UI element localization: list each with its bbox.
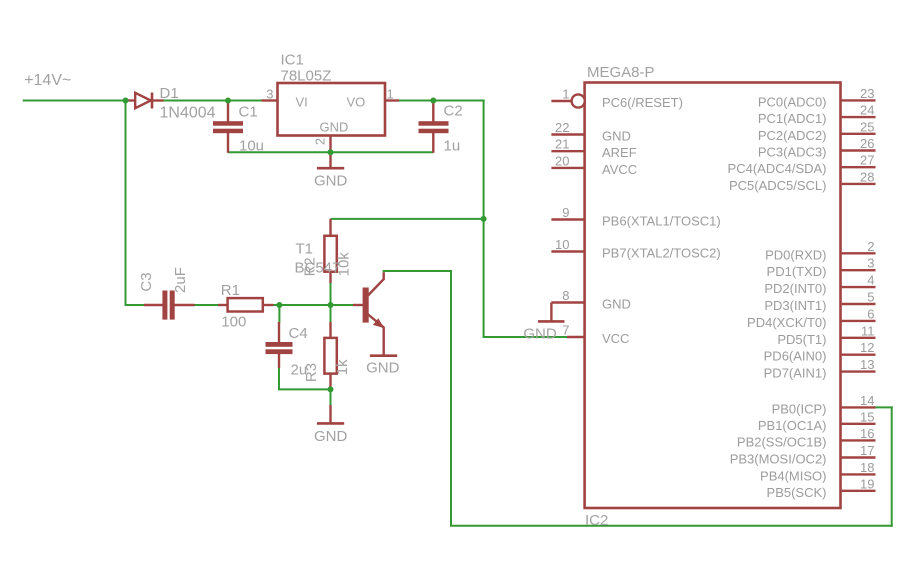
svg-text:21: 21 bbox=[555, 137, 569, 152]
microcontroller IC2 MEGA8-P body bbox=[585, 83, 841, 509]
wire: base node to transistor base bbox=[330, 304, 354, 306]
value 2uF bbox=[172, 267, 189, 293]
svg-text:13: 13 bbox=[860, 357, 874, 372]
resistor R2 bbox=[324, 219, 336, 283]
ground symbol below R3 bbox=[317, 405, 344, 423]
pin 24 PC1(ADC1) of IC2 bbox=[758, 103, 876, 127]
diode D1 bbox=[126, 93, 164, 109]
wire: C1 node to regulator VI bbox=[227, 100, 262, 102]
capacitor C3 bbox=[144, 291, 195, 320]
svg-text:C2: C2 bbox=[444, 103, 463, 120]
pin 20 AVCC of IC2 bbox=[551, 153, 637, 177]
svg-text:4: 4 bbox=[867, 273, 874, 288]
svg-text:BC547: BC547 bbox=[295, 260, 341, 277]
pin 11 PD5(T1) of IC2 bbox=[777, 323, 875, 347]
value BC547 bbox=[295, 260, 341, 277]
junction: R2/+5V node bbox=[481, 216, 487, 222]
svg-text:PC3(ADC3): PC3(ADC3) bbox=[758, 145, 827, 160]
value 2u bbox=[291, 362, 308, 379]
svg-text:GND: GND bbox=[314, 428, 348, 445]
svg-text:3: 3 bbox=[867, 256, 874, 271]
svg-text:27: 27 bbox=[860, 153, 874, 168]
wire: C4 bottom to R3 bottom node bbox=[278, 367, 332, 389]
value 10u bbox=[239, 138, 264, 155]
svg-text:PB6(XTAL1/TOSC1): PB6(XTAL1/TOSC1) bbox=[602, 214, 721, 229]
net label +14V~ bbox=[24, 72, 71, 89]
pin 27 PC4(ADC4/SDA) of IC2 bbox=[728, 153, 876, 177]
pin 12 PD6(AIN0) of IC2 bbox=[764, 340, 876, 364]
pin 25 PC2(ADC2) of IC2 bbox=[758, 119, 876, 143]
ground symbol at emitter bbox=[370, 354, 397, 357]
svg-text:26: 26 bbox=[860, 136, 874, 151]
pin 2 of IC1 bbox=[313, 136, 331, 154]
svg-text:PD6(AIN0): PD6(AIN0) bbox=[764, 349, 827, 364]
svg-text:PB2(SS/OC1B): PB2(SS/OC1B) bbox=[737, 434, 827, 449]
label GND emitter bbox=[366, 360, 400, 377]
wire: collector to PB0 net bbox=[383, 270, 893, 527]
svg-text:GND: GND bbox=[314, 173, 348, 190]
voltage regulator IC1 bbox=[278, 83, 386, 136]
svg-text:15: 15 bbox=[860, 409, 874, 424]
svg-text:PC6(/RESET): PC6(/RESET) bbox=[602, 95, 683, 110]
svg-text:PD5(T1): PD5(T1) bbox=[777, 332, 826, 347]
svg-text:1: 1 bbox=[387, 87, 394, 102]
svg-text:20: 20 bbox=[555, 153, 569, 168]
svg-text:17: 17 bbox=[860, 443, 874, 458]
svg-text:C1: C1 bbox=[239, 104, 258, 121]
svg-text:R1: R1 bbox=[221, 282, 240, 299]
transistor T1 bbox=[353, 272, 384, 355]
capacitor C1 bbox=[213, 101, 243, 153]
label R2 bbox=[301, 257, 318, 276]
wire: R1 to base node bbox=[272, 304, 332, 306]
svg-text:VO: VO bbox=[347, 95, 366, 110]
wire: C3 to R1 segment bbox=[194, 304, 219, 306]
label GND pin8 bbox=[523, 325, 557, 342]
label T1 bbox=[296, 241, 314, 258]
svg-text:23: 23 bbox=[860, 86, 874, 101]
svg-text:11: 11 bbox=[861, 323, 875, 338]
svg-text:10u: 10u bbox=[239, 138, 264, 155]
svg-text:AVCC: AVCC bbox=[602, 162, 637, 177]
svg-text:2: 2 bbox=[867, 239, 874, 254]
wire: +14V input rail bbox=[23, 100, 127, 102]
svg-text:1N4004: 1N4004 bbox=[160, 105, 216, 122]
svg-text:C3: C3 bbox=[138, 272, 155, 291]
junction: R3/C4 ground node bbox=[328, 386, 334, 392]
pin 10 PB7(XTAL2/TOSC2) of IC2 bbox=[551, 237, 720, 261]
pin 15 PB1(OC1A) of IC2 bbox=[758, 409, 876, 433]
svg-text:PB1(OC1A): PB1(OC1A) bbox=[758, 418, 827, 433]
svg-text:2uF: 2uF bbox=[172, 267, 189, 293]
pin 23 PC0(ADC0) of IC2 bbox=[758, 86, 876, 110]
svg-text:GND: GND bbox=[366, 360, 400, 377]
svg-text:10: 10 bbox=[555, 237, 569, 252]
pin 1 PC6(/RESET) of IC2 bbox=[551, 87, 683, 111]
svg-text:7: 7 bbox=[562, 323, 569, 338]
svg-text:PB5(SCK): PB5(SCK) bbox=[767, 485, 827, 500]
svg-text:PD0(RXD): PD0(RXD) bbox=[765, 247, 826, 262]
pin 21 AREF of IC2 bbox=[551, 137, 636, 161]
svg-text:+14V~: +14V~ bbox=[24, 72, 71, 89]
svg-text:PC2(ADC2): PC2(ADC2) bbox=[758, 128, 827, 143]
svg-text:T1: T1 bbox=[296, 241, 314, 258]
value 78L05Z bbox=[281, 68, 332, 85]
svg-text:100: 100 bbox=[221, 314, 246, 331]
label R1 bbox=[221, 282, 240, 299]
resistor R1 bbox=[218, 298, 274, 311]
svg-text:D1: D1 bbox=[160, 85, 179, 102]
pin 22 GND of IC2 bbox=[551, 120, 630, 144]
pin 6 PD4(XCK/T0) of IC2 bbox=[747, 306, 875, 330]
wire: +5V vertical drop to VCC bbox=[483, 100, 485, 339]
value 10k bbox=[335, 252, 352, 277]
ground symbol at regulator bbox=[317, 152, 344, 168]
svg-text:C4: C4 bbox=[289, 325, 308, 342]
wire: input branch down to C3 row bbox=[125, 100, 146, 307]
value 1u bbox=[444, 138, 461, 155]
label GND R3 bbox=[314, 428, 348, 445]
pin 9 PB6(XTAL1/TOSC1) of IC2 bbox=[551, 205, 720, 229]
svg-text:GND: GND bbox=[602, 297, 631, 312]
junction: C2 top node bbox=[430, 98, 436, 104]
svg-text:AREF: AREF bbox=[602, 145, 637, 160]
value 1N4004 bbox=[160, 105, 216, 122]
svg-text:GND: GND bbox=[523, 325, 557, 342]
pin 3 PD1(TXD) of IC2 bbox=[767, 256, 876, 280]
svg-text:PB0(ICP): PB0(ICP) bbox=[772, 401, 827, 416]
svg-text:1: 1 bbox=[562, 87, 569, 102]
pin 3 of IC1 bbox=[262, 87, 278, 102]
svg-text:IC2: IC2 bbox=[585, 512, 608, 529]
svg-text:R3: R3 bbox=[303, 363, 320, 382]
svg-text:GND: GND bbox=[602, 129, 631, 144]
svg-text:PD2(INT0): PD2(INT0) bbox=[764, 281, 826, 296]
label C2 bbox=[444, 103, 463, 120]
pin 16 PB2(SS/OC1B) of IC2 bbox=[737, 426, 876, 450]
svg-text:PC1(ADC1): PC1(ADC1) bbox=[758, 111, 827, 126]
label MEGA8-P bbox=[587, 64, 655, 81]
pin 4 PD2(INT0) of IC2 bbox=[764, 273, 875, 297]
svg-text:16: 16 bbox=[860, 426, 874, 441]
svg-text:PD3(INT1): PD3(INT1) bbox=[764, 298, 826, 313]
pin 18 PB4(MISO) of IC2 bbox=[760, 460, 875, 484]
wire: diode cathode to C1 node bbox=[163, 100, 229, 102]
svg-text:1k: 1k bbox=[334, 359, 351, 375]
svg-text:PB4(MISO): PB4(MISO) bbox=[760, 468, 826, 483]
ground symbol at IC2 pin 8 bbox=[538, 303, 565, 322]
svg-text:PB3(MOSI/OC2): PB3(MOSI/OC2) bbox=[730, 452, 827, 467]
svg-text:PC5(ADC5/SCL): PC5(ADC5/SCL) bbox=[729, 178, 827, 193]
label C3 bbox=[138, 272, 155, 291]
svg-text:GND: GND bbox=[320, 120, 349, 135]
svg-text:PC4(ADC4/SDA): PC4(ADC4/SDA) bbox=[728, 161, 827, 176]
wire: R3 bottom node to ground lead bbox=[330, 388, 332, 406]
label R3 bbox=[303, 363, 320, 382]
pin 5 PD3(INT1) of IC2 bbox=[764, 290, 875, 314]
label C1 bbox=[239, 104, 258, 121]
pin 7 VCC of IC2 bbox=[562, 323, 629, 347]
wire: +5V into VCC pin 7 bbox=[483, 336, 567, 338]
pin 28 PC5(ADC5/SCL) of IC2 bbox=[729, 169, 876, 193]
wire: regulator VO to C2 node and right bbox=[399, 100, 485, 102]
pin 8 GND of IC2 bbox=[551, 288, 630, 312]
svg-text:9: 9 bbox=[562, 205, 569, 220]
pin 13 PD7(AIN1) of IC2 bbox=[764, 357, 876, 381]
svg-text:1u: 1u bbox=[444, 138, 461, 155]
wire: R2 top to +5V node bbox=[331, 218, 485, 220]
svg-text:25: 25 bbox=[860, 119, 874, 134]
value 1k bbox=[334, 359, 351, 375]
label D1 bbox=[160, 85, 179, 102]
svg-text:PC0(ADC0): PC0(ADC0) bbox=[758, 94, 827, 109]
svg-text:3: 3 bbox=[266, 87, 273, 102]
value 100 bbox=[221, 314, 246, 331]
svg-text:18: 18 bbox=[860, 460, 874, 475]
pin 19 PB5(SCK) of IC2 bbox=[767, 476, 876, 500]
svg-text:PD7(AIN1): PD7(AIN1) bbox=[764, 366, 827, 381]
svg-text:VCC: VCC bbox=[602, 331, 629, 346]
svg-text:PB7(XTAL2/TOSC2): PB7(XTAL2/TOSC2) bbox=[602, 246, 721, 261]
svg-text:MEGA8-P: MEGA8-P bbox=[587, 64, 655, 81]
junction: C1 top node bbox=[225, 98, 231, 104]
svg-text:PD1(TXD): PD1(TXD) bbox=[767, 264, 827, 279]
svg-text:2: 2 bbox=[313, 138, 328, 145]
label GND regulator bbox=[314, 173, 348, 190]
junction: regulator GND node bbox=[328, 149, 334, 155]
resistor R3 bbox=[324, 322, 336, 390]
pin 14 PB0(ICP) of IC2 bbox=[772, 393, 876, 417]
wire: R2 bottom to base node to R3 bbox=[330, 281, 332, 323]
wire: ground rail C1-C2 bbox=[228, 151, 433, 153]
svg-text:22: 22 bbox=[555, 120, 569, 135]
pin 17 PB3(MOSI/OC2) of IC2 bbox=[730, 443, 876, 467]
svg-text:19: 19 bbox=[860, 476, 874, 491]
junction: R1/C4 node bbox=[276, 302, 282, 308]
svg-text:IC1: IC1 bbox=[281, 52, 304, 69]
capacitor C2 bbox=[419, 101, 449, 153]
svg-text:8: 8 bbox=[562, 288, 569, 303]
pin 2 PD0(RXD) of IC2 bbox=[765, 239, 875, 262]
svg-text:VI: VI bbox=[296, 95, 308, 110]
svg-text:14: 14 bbox=[860, 393, 874, 408]
junction: base node bbox=[328, 302, 334, 308]
label IC1 bbox=[281, 52, 304, 69]
svg-text:24: 24 bbox=[860, 103, 874, 118]
capacitor C4 bbox=[266, 322, 293, 368]
wire: node down to C4 bbox=[278, 304, 280, 323]
svg-text:28: 28 bbox=[860, 169, 874, 184]
label C4 bbox=[289, 325, 308, 342]
pin 26 PC3(ADC3) of IC2 bbox=[758, 136, 876, 160]
label IC2 bbox=[585, 512, 608, 529]
junction: diode anode node bbox=[123, 98, 129, 104]
svg-text:78L05Z: 78L05Z bbox=[281, 68, 332, 85]
svg-text:6: 6 bbox=[867, 306, 874, 321]
svg-text:5: 5 bbox=[867, 290, 874, 305]
pin 1 of IC1 bbox=[385, 87, 399, 102]
svg-text:12: 12 bbox=[860, 340, 874, 355]
svg-text:PD4(XCK/T0): PD4(XCK/T0) bbox=[747, 315, 826, 330]
